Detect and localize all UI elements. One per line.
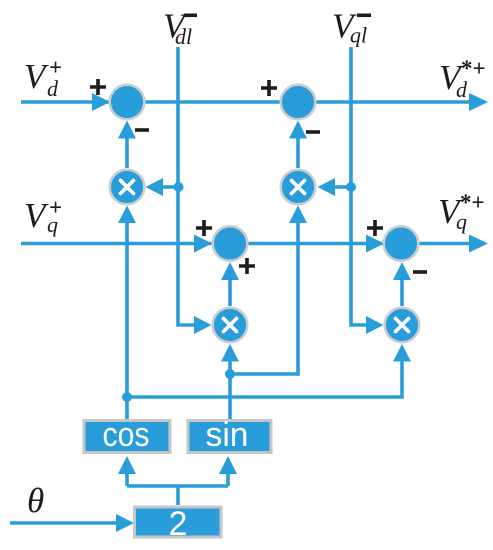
wire theta input	[10, 521, 120, 525]
arrowhead into sin bottom	[219, 456, 237, 474]
multiplier X2	[281, 170, 316, 205]
node dot on sin line	[225, 369, 235, 379]
arrowhead into X3 from Vdl	[194, 316, 212, 334]
wire cos branch right and up into X4	[127, 353, 402, 397]
sign + at S4 left	[367, 220, 383, 236]
sin block	[188, 416, 271, 454]
summing junction S1	[110, 85, 145, 120]
arrowhead into S3	[194, 235, 212, 253]
node dot on Vql at X2 tap	[346, 182, 356, 192]
label Vdl-	[163, 7, 197, 50]
arrowhead into X2 from Vql tap	[318, 178, 336, 196]
arrowhead into X4 from Vql	[366, 316, 384, 334]
svg-text:ql: ql	[350, 23, 367, 48]
cos block	[84, 416, 170, 454]
label Vql-	[332, 7, 371, 48]
wire row 2 (Vq+ to Vq*+)	[21, 242, 470, 246]
wire 2-block fanout to cos and sin	[127, 466, 228, 505]
label Vd+	[24, 55, 62, 101]
svg-text:+: +	[49, 195, 62, 220]
wire Vdl tap to X1	[163, 185, 178, 189]
arrowhead into X1 bottom	[118, 206, 136, 224]
wire sin output up to X3	[228, 353, 232, 419]
svg-text:*+: *+	[460, 190, 485, 215]
wire sin branch right and up into X2	[230, 215, 298, 374]
label Vd*+	[439, 56, 486, 102]
sign + at S1 left	[90, 79, 106, 95]
arrowhead into X4 bottom	[393, 344, 411, 362]
svg-text:sin: sin	[206, 416, 249, 454]
arrowhead into S1 bottom	[118, 121, 136, 139]
node dot on Vdl at X1 tap	[174, 182, 184, 192]
wire Vdl vertical then right into X3	[178, 47, 194, 325]
sign + at S2 left	[261, 80, 277, 96]
arrowhead into X3 bottom	[221, 344, 239, 362]
label Vq*+	[438, 190, 485, 234]
sign - at S2 bottom	[306, 130, 320, 134]
svg-text:θ: θ	[27, 481, 44, 520]
wire row 1 (Vd+ to Vd*+)	[21, 100, 470, 104]
wire X1 output to S1	[125, 130, 129, 168]
multiplier X3	[213, 308, 248, 343]
arrowhead output Vd*+	[469, 93, 488, 111]
summing junction S3	[213, 226, 248, 261]
svg-text:V: V	[24, 196, 49, 235]
summing junction S4	[384, 226, 419, 261]
svg-text:2: 2	[169, 505, 188, 543]
gain block 2	[135, 505, 222, 543]
wire X2 output to S2	[296, 130, 300, 168]
arrowhead into S1	[92, 93, 110, 111]
arrowhead into X2 bottom	[289, 206, 307, 224]
svg-text:*+: *+	[461, 56, 486, 81]
wire cos output up to X1	[125, 215, 129, 419]
arrowhead into cos bottom	[118, 456, 136, 474]
multiplier X4	[385, 308, 420, 343]
sign - at S1 bottom	[135, 128, 149, 132]
arrowhead into S4	[366, 235, 384, 253]
summing junction S2	[281, 85, 316, 120]
wire Vql vertical then right into X4	[351, 47, 367, 325]
svg-text:dl: dl	[175, 24, 192, 49]
arrowhead into X1 from Vdl tap	[146, 178, 164, 196]
svg-text:cos: cos	[103, 416, 150, 454]
sign + at S3 left	[196, 220, 212, 236]
sign - at S4 bottom	[413, 270, 427, 274]
sign + at S3 bottom	[239, 258, 255, 274]
node dot on cos line	[122, 392, 132, 402]
arrowhead output Vq*+	[469, 235, 488, 253]
svg-text:+: +	[49, 55, 62, 80]
multiplier X1	[110, 170, 145, 205]
arrowhead into S3 bottom	[221, 262, 239, 280]
arrowhead into S2 bottom	[289, 121, 307, 139]
label Vq+	[24, 195, 62, 237]
wire Vql tap to X2	[335, 185, 351, 189]
arrowhead into 2-block (theta)	[116, 514, 134, 532]
svg-text:V: V	[24, 57, 49, 96]
arrowhead into S4 bottom	[393, 262, 411, 280]
wire X4 output to S4	[400, 272, 404, 306]
wire X3 output to S3	[228, 272, 232, 306]
